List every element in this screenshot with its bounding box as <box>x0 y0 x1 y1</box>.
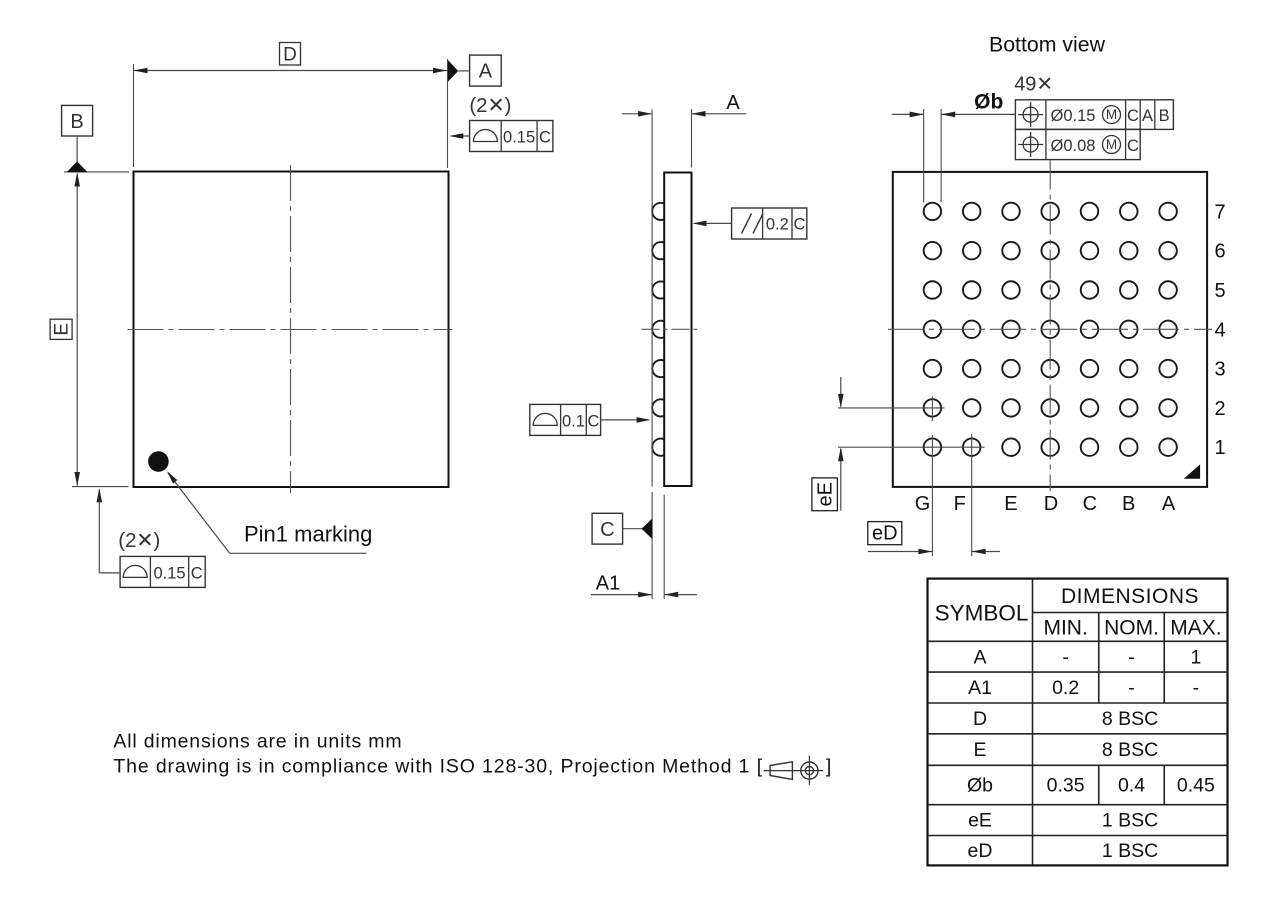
svg-text:A: A <box>479 61 493 83</box>
svg-text:1: 1 <box>1190 646 1201 668</box>
svg-text:A1: A1 <box>968 677 992 699</box>
svg-text:C: C <box>1127 137 1139 155</box>
svg-text:E: E <box>1004 493 1017 515</box>
svg-text:B: B <box>70 111 83 133</box>
svg-text:NOM.: NOM. <box>1104 616 1159 639</box>
svg-text:D: D <box>283 45 297 66</box>
svg-text:C: C <box>191 564 203 582</box>
svg-text:C: C <box>539 129 551 147</box>
svg-text:1 BSC: 1 BSC <box>1102 810 1158 832</box>
svg-text:Bottom view: Bottom view <box>989 33 1106 57</box>
svg-text:C: C <box>588 412 600 430</box>
svg-text:M: M <box>1106 107 1117 122</box>
svg-text:B: B <box>1122 493 1135 515</box>
svg-text:eE: eE <box>968 810 992 832</box>
svg-text:-: - <box>1193 677 1200 699</box>
svg-text:-: - <box>1062 646 1069 668</box>
svg-text:0.45: 0.45 <box>1177 775 1215 797</box>
svg-text:Pin1 marking: Pin1 marking <box>244 522 372 547</box>
svg-text:C: C <box>1083 493 1097 515</box>
svg-text:0.1: 0.1 <box>562 412 585 430</box>
svg-text:Ø0.08: Ø0.08 <box>1051 137 1096 155</box>
svg-text:5: 5 <box>1214 280 1225 302</box>
svg-text:2: 2 <box>1214 398 1225 420</box>
svg-text:0.2: 0.2 <box>766 216 789 234</box>
svg-text:A: A <box>726 92 740 114</box>
svg-text:MIN.: MIN. <box>1043 616 1087 639</box>
svg-text:eD: eD <box>968 840 993 862</box>
svg-text:7: 7 <box>1214 201 1225 223</box>
svg-text:49✕: 49✕ <box>1014 74 1053 96</box>
svg-text:F: F <box>954 493 966 515</box>
svg-text:E: E <box>52 323 73 336</box>
svg-text:C: C <box>600 519 614 541</box>
svg-text:(2✕): (2✕) <box>118 530 160 552</box>
svg-text:-: - <box>1128 677 1135 699</box>
svg-text:G: G <box>915 493 931 515</box>
svg-text:A: A <box>973 646 986 668</box>
svg-text:Øb: Øb <box>974 91 1003 114</box>
svg-text:eD: eD <box>872 523 898 545</box>
svg-text:(2✕): (2✕) <box>469 95 511 117</box>
svg-text:C: C <box>1127 107 1139 125</box>
svg-text:0.2: 0.2 <box>1052 677 1079 699</box>
svg-text:8 BSC: 8 BSC <box>1102 739 1158 761</box>
svg-text:1 BSC: 1 BSC <box>1102 840 1158 862</box>
svg-text:Øb: Øb <box>967 775 993 797</box>
svg-text:]: ] <box>826 756 831 778</box>
svg-text:All dimensions are in units mm: All dimensions are in units mm <box>113 731 402 753</box>
svg-text:6: 6 <box>1214 241 1225 263</box>
svg-text:[: [ <box>757 756 763 778</box>
svg-text:8 BSC: 8 BSC <box>1102 708 1158 730</box>
svg-text:B: B <box>1159 107 1170 125</box>
svg-text:0.15: 0.15 <box>153 564 185 582</box>
svg-text:C: C <box>793 216 805 234</box>
svg-text:A1: A1 <box>596 573 620 595</box>
svg-text:MAX.: MAX. <box>1170 616 1221 639</box>
svg-text:0.4: 0.4 <box>1118 775 1145 797</box>
svg-text:D: D <box>1044 493 1058 515</box>
svg-text:SYMBOL: SYMBOL <box>935 601 1029 626</box>
svg-text:D: D <box>973 708 987 730</box>
svg-text:The drawing is in compliance w: The drawing is in compliance with ISO 12… <box>113 756 750 778</box>
svg-text:E: E <box>973 739 986 761</box>
svg-text:-: - <box>1128 646 1135 668</box>
svg-text:M: M <box>1106 137 1117 152</box>
svg-text:Ø0.15: Ø0.15 <box>1051 107 1096 125</box>
svg-text:A: A <box>1162 493 1176 515</box>
svg-text:1: 1 <box>1214 437 1225 459</box>
svg-text:0.35: 0.35 <box>1047 775 1085 797</box>
svg-text:3: 3 <box>1214 359 1225 381</box>
svg-text:0.15: 0.15 <box>503 129 535 147</box>
svg-text:4: 4 <box>1214 319 1225 341</box>
svg-text:A: A <box>1142 107 1153 125</box>
svg-text:eE: eE <box>815 482 837 506</box>
svg-text:DIMENSIONS: DIMENSIONS <box>1061 585 1199 608</box>
